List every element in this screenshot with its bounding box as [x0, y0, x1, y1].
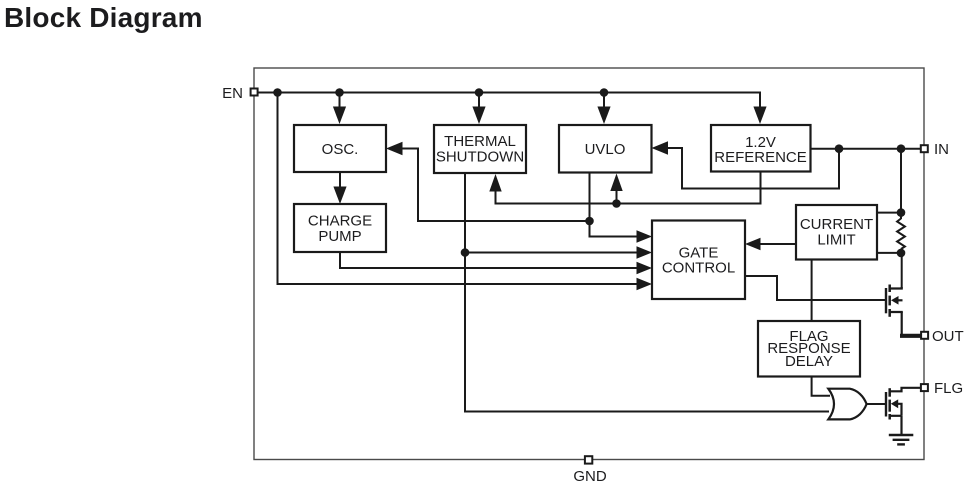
node junction dot feedback branch on IN rail [835, 144, 844, 153]
svg-text:THERMAL: THERMAL [444, 133, 516, 150]
wire 1.2V REFERENCE bottom output to reference rail [496, 172, 761, 204]
node junction dot resistor top terminal [897, 208, 906, 217]
wire arrow into GATE CONTROL right edge [745, 238, 761, 250]
svg-text:REFERENCE: REFERENCE [714, 149, 807, 166]
svg-text:CURRENT: CURRENT [800, 216, 873, 233]
svg-text:IN: IN [934, 141, 949, 158]
svg-text:OUT: OUT [932, 328, 964, 345]
wire IN rail from 1.2V REFERENCE to IN pin [811, 148, 921, 150]
wire arrow EN into UVLO top [597, 93, 610, 125]
svg-text:PUMP: PUMP [318, 228, 361, 245]
node EN junction dot above OSC [335, 88, 344, 97]
wire EN branch down to gate-control input 4 [278, 93, 641, 285]
block OSC [294, 125, 386, 172]
node EN junction dot above UVLO [600, 88, 609, 97]
wire GATE CONTROL output to output MOSFET gate [745, 276, 885, 300]
wire thick OUT lead [900, 334, 921, 338]
wire arrow EN into OSC top [333, 93, 346, 125]
svg-text:DELAY: DELAY [785, 353, 833, 370]
wire IN rail down to resistor [900, 149, 902, 219]
wire arrow reference rail up into THERMAL SHUTDOWN bottom [489, 174, 501, 205]
block CURRENT LIMIT [796, 205, 877, 260]
svg-text:CHARGE: CHARGE [308, 213, 372, 230]
wire OR gate output to flag MOSFET gate [867, 403, 886, 405]
wire THERMAL SHUTDOWN bottom output down to OR-gate rail [465, 173, 829, 412]
transistor output MOSFET Q1 [886, 285, 903, 317]
svg-text:LIMIT: LIMIT [817, 232, 855, 249]
transistor flag MOSFET Q2 [886, 388, 921, 420]
wire resistor bottom to output MOSFET drain [901, 249, 903, 289]
wire CURRENT LIMIT output to GATE CONTROL [758, 243, 796, 245]
pin GND [573, 456, 607, 485]
svg-text:SHUTDOWN: SHUTDOWN [436, 149, 524, 166]
wire arrow reference rail up into UVLO bottom [610, 174, 622, 204]
wire CURRENT LIMIT sense stub top [877, 212, 901, 214]
block CHARGE PUMP [294, 204, 386, 252]
node junction dot UVLO output branch [585, 217, 594, 226]
wire arrow into UVLO right edge [652, 141, 669, 155]
wire arrow gate-control input 4 [637, 278, 653, 290]
block UVLO [559, 125, 652, 173]
wire output MOSFET source down to OUT [901, 312, 903, 336]
resistor sense zigzag [897, 219, 905, 250]
block THERMAL SHUTDOWN [434, 125, 526, 173]
pin FLG [921, 380, 963, 397]
wire arrow EN into THERMAL SHUTDOWN top [472, 93, 485, 125]
block FLAG RESPONSE DELAY [758, 321, 860, 377]
node junction dot resistor bottom terminal [897, 249, 906, 258]
wire CHARGE PUMP output to gate-control input 3 [340, 252, 640, 268]
pin IN [921, 141, 949, 158]
node EN junction dot above THERMAL SHUTDOWN [475, 88, 484, 97]
wire arrow into OSC right edge [386, 142, 403, 156]
outer IC boundary box [254, 68, 924, 460]
wire branch to OSC right side [399, 149, 590, 222]
wire arrow OSC to CHARGE PUMP [333, 172, 346, 204]
pin EN [222, 85, 257, 102]
ground symbol [889, 435, 914, 444]
wire feedback from IN rail to UVLO right side [666, 148, 839, 189]
svg-text:EN: EN [222, 85, 243, 102]
wire arrow gate-control input 2 [637, 246, 653, 258]
pin OUT [921, 328, 964, 345]
wire arrow gate-control input 3 [637, 262, 653, 274]
node junction dot resistor top on IN rail [897, 144, 906, 153]
or-gate U1 [828, 389, 866, 420]
block GATE CONTROL [652, 221, 745, 300]
wire flag MOSFET source to ground [900, 416, 902, 435]
svg-text:Block Diagram: Block Diagram [4, 2, 203, 33]
wire CURRENT LIMIT bottom to FLAG RESPONSE DELAY top [811, 260, 813, 322]
wire arrow EN into 1.2V REFERENCE top [753, 107, 766, 125]
svg-text:FLG: FLG [934, 380, 963, 397]
wire EN corner down to 1.2V REFERENCE arrow [759, 92, 761, 110]
svg-text:GND: GND [573, 468, 607, 485]
node junction dot UVLO up-arrow on reference rail [612, 199, 621, 208]
wire CURRENT LIMIT sense stub bottom [877, 252, 901, 254]
wire UVLO bottom output down to gate-control input 1 [590, 173, 641, 237]
svg-text:CONTROL: CONTROL [662, 260, 735, 277]
svg-text:UVLO: UVLO [585, 141, 626, 158]
svg-text:OSC.: OSC. [322, 141, 359, 158]
wire FLAG RESPONSE DELAY bottom to OR gate top input [812, 377, 830, 396]
wire EN horizontal rail y=92.5 [258, 92, 760, 94]
block 1.2V REFERENCE [711, 125, 811, 172]
node EN junction dot 1 [273, 88, 282, 97]
wire arrow gate-control input 1 [637, 230, 653, 242]
node junction dot thermal output at gate-control input 2 [461, 248, 470, 257]
wire gate-control input 2 [465, 252, 640, 254]
